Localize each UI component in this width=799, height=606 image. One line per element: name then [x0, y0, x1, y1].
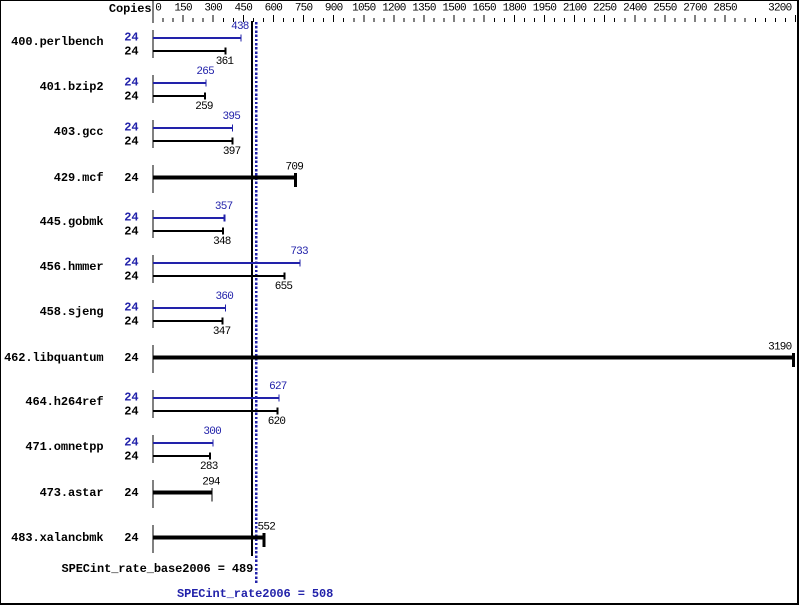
benchmark group 458.sjeng: [40, 291, 234, 338]
svg-text:600: 600: [265, 3, 283, 15]
benchmark group 462.libquantum: [4, 342, 795, 374]
svg-text:450: 450: [235, 3, 253, 15]
svg-text:24: 24: [124, 351, 138, 365]
svg-text:24: 24: [124, 171, 138, 185]
axis whisker: [153, 435, 154, 463]
axis whisker: [153, 345, 154, 373]
benchmark group 473.astar: [40, 477, 221, 509]
svg-text:1350: 1350: [412, 3, 436, 15]
peak bar 357: [153, 217, 225, 219]
svg-text:24: 24: [124, 90, 138, 104]
svg-text:620: 620: [268, 416, 286, 428]
svg-text:24: 24: [124, 135, 138, 149]
axis whisker: [153, 300, 154, 328]
svg-text:1050: 1050: [352, 3, 376, 15]
benchmark group 483.xalancbmk: [11, 522, 275, 554]
svg-text:1950: 1950: [533, 3, 557, 15]
base bar end cap: [224, 48, 226, 55]
svg-text:750: 750: [295, 3, 313, 15]
combined base/peak bar 709: [153, 176, 295, 180]
svg-text:24: 24: [124, 450, 138, 464]
axis whisker: [153, 525, 154, 553]
peak bar 300: [153, 442, 213, 444]
base bar 259: [153, 95, 205, 97]
base bar 655: [153, 275, 284, 277]
svg-text:24: 24: [124, 301, 138, 315]
axis whisker: [153, 30, 154, 58]
svg-text:456.hmmer: 456.hmmer: [40, 260, 104, 274]
base bar end cap: [276, 408, 278, 415]
svg-text:24: 24: [124, 315, 138, 329]
svg-text:0: 0: [155, 3, 161, 15]
benchmark group 471.omnetpp: [25, 426, 221, 473]
axis whisker: [153, 255, 154, 283]
y-axis line (header segment): [153, 1, 154, 23]
axis whisker: [153, 165, 154, 193]
svg-text:24: 24: [124, 45, 138, 59]
svg-text:403.gcc: 403.gcc: [54, 125, 104, 139]
combined base/peak bar 552: [153, 536, 264, 540]
base bar end cap: [209, 453, 211, 460]
svg-text:360: 360: [216, 291, 234, 303]
peak bar end cap: [206, 80, 207, 87]
benchmark group 429.mcf: [54, 162, 303, 194]
svg-text:2400: 2400: [623, 3, 647, 15]
peak bar end cap: [213, 440, 214, 447]
base bar end cap: [232, 138, 234, 145]
peak bar 438: [153, 37, 241, 39]
base bar end cap: [204, 93, 206, 100]
svg-text:24: 24: [124, 31, 138, 45]
svg-text:709: 709: [286, 162, 304, 174]
axis whisker: [153, 210, 154, 238]
svg-text:24: 24: [124, 436, 138, 450]
svg-text:294: 294: [202, 477, 221, 489]
svg-text:150: 150: [174, 3, 192, 15]
axis whisker: [153, 390, 154, 418]
svg-text:2850: 2850: [713, 3, 737, 15]
peak bar end cap: [300, 260, 301, 267]
svg-text:24: 24: [124, 256, 138, 270]
svg-text:900: 900: [325, 3, 343, 15]
svg-text:464.h264ref: 464.h264ref: [25, 395, 103, 409]
peak bar 360: [153, 307, 225, 309]
svg-text:483.xalancbmk: 483.xalancbmk: [11, 531, 103, 545]
peak bar end cap: [232, 125, 233, 132]
axis whisker: [153, 120, 154, 148]
svg-text:348: 348: [213, 236, 231, 248]
svg-text:462.libquantum: 462.libquantum: [4, 351, 103, 365]
peak bar 627: [153, 397, 279, 399]
base bar 348: [153, 230, 223, 232]
svg-text:300: 300: [203, 426, 221, 438]
svg-text:259: 259: [195, 101, 213, 113]
svg-text:1800: 1800: [503, 3, 527, 15]
svg-text:SPECint_rate_base2006 = 489: SPECint_rate_base2006 = 489: [62, 562, 254, 576]
svg-text:1650: 1650: [472, 3, 496, 15]
axis whisker: [153, 75, 154, 103]
svg-text:283: 283: [200, 461, 218, 473]
x-axis scale number labels 0..2850,3200: [155, 3, 791, 15]
svg-text:3200: 3200: [768, 3, 792, 15]
benchmark group 400.perlbench: [11, 21, 249, 68]
svg-text:24: 24: [124, 76, 138, 90]
benchmark group 464.h264ref: [25, 381, 286, 428]
base bar 283: [153, 455, 210, 457]
axis whisker: [153, 480, 154, 508]
peak bar end cap: [224, 215, 226, 222]
reference line SPECint_rate_base2006 = 489 (solid black vertical): [251, 21, 253, 556]
svg-text:445.gobmk: 445.gobmk: [40, 215, 104, 229]
x-axis tick marks every 50, major every 150 and at 3200: [163, 15, 796, 22]
svg-text:347: 347: [213, 326, 231, 338]
svg-text:24: 24: [124, 121, 138, 135]
svg-text:Copies: Copies: [109, 2, 152, 16]
svg-text:400.perlbench: 400.perlbench: [11, 35, 103, 49]
svg-text:2250: 2250: [593, 3, 617, 15]
svg-text:401.bzip2: 401.bzip2: [40, 80, 104, 94]
peak bar end cap: [240, 35, 241, 42]
base bar 397: [153, 140, 233, 142]
svg-text:552: 552: [258, 522, 276, 534]
svg-text:265: 265: [196, 66, 214, 78]
svg-text:627: 627: [269, 381, 287, 393]
svg-text:357: 357: [215, 201, 233, 213]
base bar end cap: [222, 318, 224, 325]
svg-text:655: 655: [275, 281, 293, 293]
peak bar 395: [153, 127, 232, 129]
svg-text:733: 733: [290, 246, 308, 258]
svg-text:24: 24: [124, 531, 138, 545]
svg-text:438: 438: [231, 21, 249, 33]
bar end cap: [294, 173, 297, 187]
svg-text:300: 300: [204, 3, 222, 15]
benchmark group 403.gcc: [54, 111, 241, 158]
svg-text:395: 395: [223, 111, 241, 123]
svg-text:429.mcf: 429.mcf: [54, 171, 104, 185]
svg-text:473.astar: 473.astar: [40, 486, 104, 500]
svg-text:2550: 2550: [653, 3, 677, 15]
svg-text:1500: 1500: [442, 3, 466, 15]
svg-text:24: 24: [124, 225, 138, 239]
benchmark group 445.gobmk: [40, 201, 233, 248]
svg-text:24: 24: [124, 211, 138, 225]
benchmark group 401.bzip2: [40, 66, 215, 113]
peak bar 265: [153, 82, 206, 84]
base bar 361: [153, 50, 225, 52]
svg-text:458.sjeng: 458.sjeng: [40, 305, 104, 319]
svg-text:2100: 2100: [563, 3, 587, 15]
bar end cap: [262, 533, 265, 547]
combined base/peak bar 294: [153, 491, 212, 495]
svg-text:471.omnetpp: 471.omnetpp: [25, 440, 103, 454]
svg-text:397: 397: [223, 146, 241, 158]
svg-text:24: 24: [124, 270, 138, 284]
base bar end cap: [283, 273, 285, 280]
svg-text:3190: 3190: [768, 342, 792, 354]
base bar 620: [153, 410, 277, 412]
reference line SPECint_rate2006 = 508 (dotted blue vertical): [255, 22, 257, 585]
svg-text:24: 24: [124, 391, 138, 405]
svg-text:1200: 1200: [382, 3, 406, 15]
benchmark group 456.hmmer: [40, 246, 308, 293]
combined base/peak bar 3190: [153, 356, 793, 360]
base bar 347: [153, 320, 223, 322]
svg-text:2700: 2700: [683, 3, 707, 15]
svg-text:SPECint_rate2006 = 508: SPECint_rate2006 = 508: [177, 587, 333, 601]
svg-text:24: 24: [124, 405, 138, 419]
svg-text:361: 361: [216, 56, 235, 68]
bar end cap: [212, 488, 213, 502]
peak bar 733: [153, 262, 300, 264]
peak bar end cap: [278, 395, 279, 402]
svg-text:24: 24: [124, 486, 138, 500]
base bar end cap: [222, 228, 224, 235]
bar end cap: [792, 353, 795, 367]
peak bar end cap: [225, 305, 226, 312]
